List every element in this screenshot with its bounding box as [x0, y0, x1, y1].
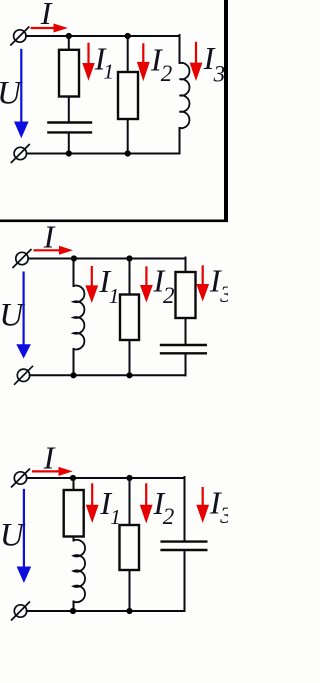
- wire R3 to C3: [185, 318, 187, 344]
- wire R2 to bottom rail: [129, 340, 131, 375]
- voltage arrow U (blue): [14, 50, 29, 138]
- label I1: [94, 41, 114, 84]
- svg-text:3: 3: [219, 503, 228, 528]
- svg-text:I: I: [40, 0, 53, 31]
- wire C3 to bottom rail: [184, 551, 186, 611]
- resistor R2: [118, 72, 138, 119]
- wire top rail: [26, 35, 180, 37]
- label I2: [150, 41, 172, 86]
- wire coil to bottom rail: [73, 349, 75, 375]
- node junction top B: [126, 475, 132, 481]
- wire C3 to bottom rail: [185, 354, 187, 375]
- label I3: [203, 40, 226, 87]
- node junction top A: [71, 255, 77, 261]
- svg-text:3: 3: [213, 62, 226, 87]
- terminal top-left: [11, 27, 29, 45]
- resistor R1: [64, 490, 84, 537]
- svg-text:1: 1: [109, 284, 120, 308]
- label I3: [209, 262, 232, 307]
- node junction top A: [70, 475, 76, 481]
- current arrow I3: [196, 266, 209, 301]
- wire R2 to bottom rail: [127, 119, 129, 154]
- capacitor C1: [48, 123, 91, 133]
- current arrow I1: [86, 484, 99, 523]
- current arrow I: [32, 24, 68, 33]
- current arrow I1: [82, 44, 94, 81]
- wire R1 to C1: [68, 97, 70, 122]
- wire right drop to R3: [185, 258, 187, 273]
- terminal bottom-left: [11, 145, 29, 163]
- capacitor C3: [161, 345, 206, 353]
- node junction bottom B: [125, 150, 131, 156]
- node junction bottom A: [70, 372, 76, 378]
- node junction top B: [125, 33, 131, 39]
- wire C1 to bottom rail: [68, 134, 70, 154]
- node junction bottom A: [66, 150, 72, 156]
- node junction top A: [66, 33, 72, 39]
- terminal top-left: [12, 469, 30, 487]
- inductor L1: [73, 286, 84, 350]
- current arrow I3: [196, 488, 209, 523]
- label I2: [153, 262, 175, 308]
- current arrow I2: [140, 484, 153, 523]
- svg-text:U: U: [0, 517, 26, 553]
- svg-text:U: U: [0, 298, 25, 334]
- label I2: [153, 485, 175, 529]
- wire bottom rail: [27, 153, 180, 155]
- wire branch2 upper: [129, 478, 131, 525]
- label I3: [209, 485, 232, 529]
- inductor L1: [179, 63, 189, 128]
- svg-text:2: 2: [163, 504, 175, 529]
- svg-text:2: 2: [161, 61, 173, 86]
- wire branch2 upper: [129, 259, 131, 295]
- terminal top-left: [13, 250, 31, 268]
- wire branch1 upper: [68, 36, 70, 50]
- wire bottom rail: [27, 610, 185, 612]
- current arrow I2: [140, 267, 153, 302]
- current arrow I3: [190, 43, 203, 81]
- cell bottom border: [0, 220, 228, 223]
- node junction bottom B: [126, 372, 132, 378]
- wire right drop to C3: [184, 477, 186, 540]
- svg-text:2: 2: [163, 283, 175, 308]
- voltage arrow U (blue): [16, 273, 31, 359]
- wire bottom rail: [30, 374, 186, 376]
- inductor L1: [73, 540, 85, 602]
- wire top rail: [28, 258, 185, 260]
- resistor R3: [176, 272, 196, 318]
- wire right drop to coil: [179, 35, 181, 63]
- wire branch2 upper: [127, 36, 129, 72]
- node junction top B: [126, 255, 132, 261]
- current arrow I: [35, 246, 73, 255]
- wire R2 to bottom rail: [129, 570, 131, 611]
- resistor R2: [120, 295, 139, 341]
- current arrow I: [33, 467, 73, 476]
- resistor R1: [59, 50, 79, 97]
- voltage arrow U (blue): [17, 490, 32, 583]
- current arrow I1: [85, 267, 98, 303]
- wire branch1 upper: [73, 478, 75, 490]
- wire top rail: [27, 477, 185, 479]
- current arrow I2: [137, 44, 150, 81]
- wire R1 to coil: [73, 537, 75, 541]
- wire branch1 upper: [73, 259, 75, 287]
- svg-text:3: 3: [219, 282, 228, 307]
- terminal bottom-left: [12, 602, 30, 620]
- resistor R2: [120, 525, 140, 570]
- terminal bottom-left: [15, 366, 33, 384]
- svg-text:I: I: [43, 439, 56, 475]
- svg-text:I: I: [43, 218, 56, 254]
- capacitor C3: [162, 542, 207, 550]
- wire coil to bottom rail: [73, 602, 75, 612]
- svg-text:1: 1: [103, 60, 114, 84]
- svg-text:U: U: [0, 75, 23, 111]
- cell right border: [224, 0, 228, 222]
- label I1: [99, 485, 120, 529]
- wire coil to bottom rail: [179, 128, 181, 154]
- label I1: [98, 263, 119, 308]
- node junction bottom A: [70, 608, 76, 614]
- node junction bottom B: [126, 608, 132, 614]
